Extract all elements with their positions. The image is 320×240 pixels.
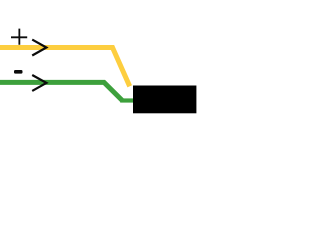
arrowhead on positive wire	[32, 40, 46, 56]
component block (black box)	[133, 86, 196, 114]
wire positive (yellow)	[0, 48, 130, 87]
label minus (-)	[14, 70, 23, 74]
wire negative (green)	[0, 82, 122, 100]
wire negative stub into block	[120, 98, 135, 102]
arrowhead on negative wire	[32, 75, 46, 91]
label plus (+)	[11, 29, 27, 45]
